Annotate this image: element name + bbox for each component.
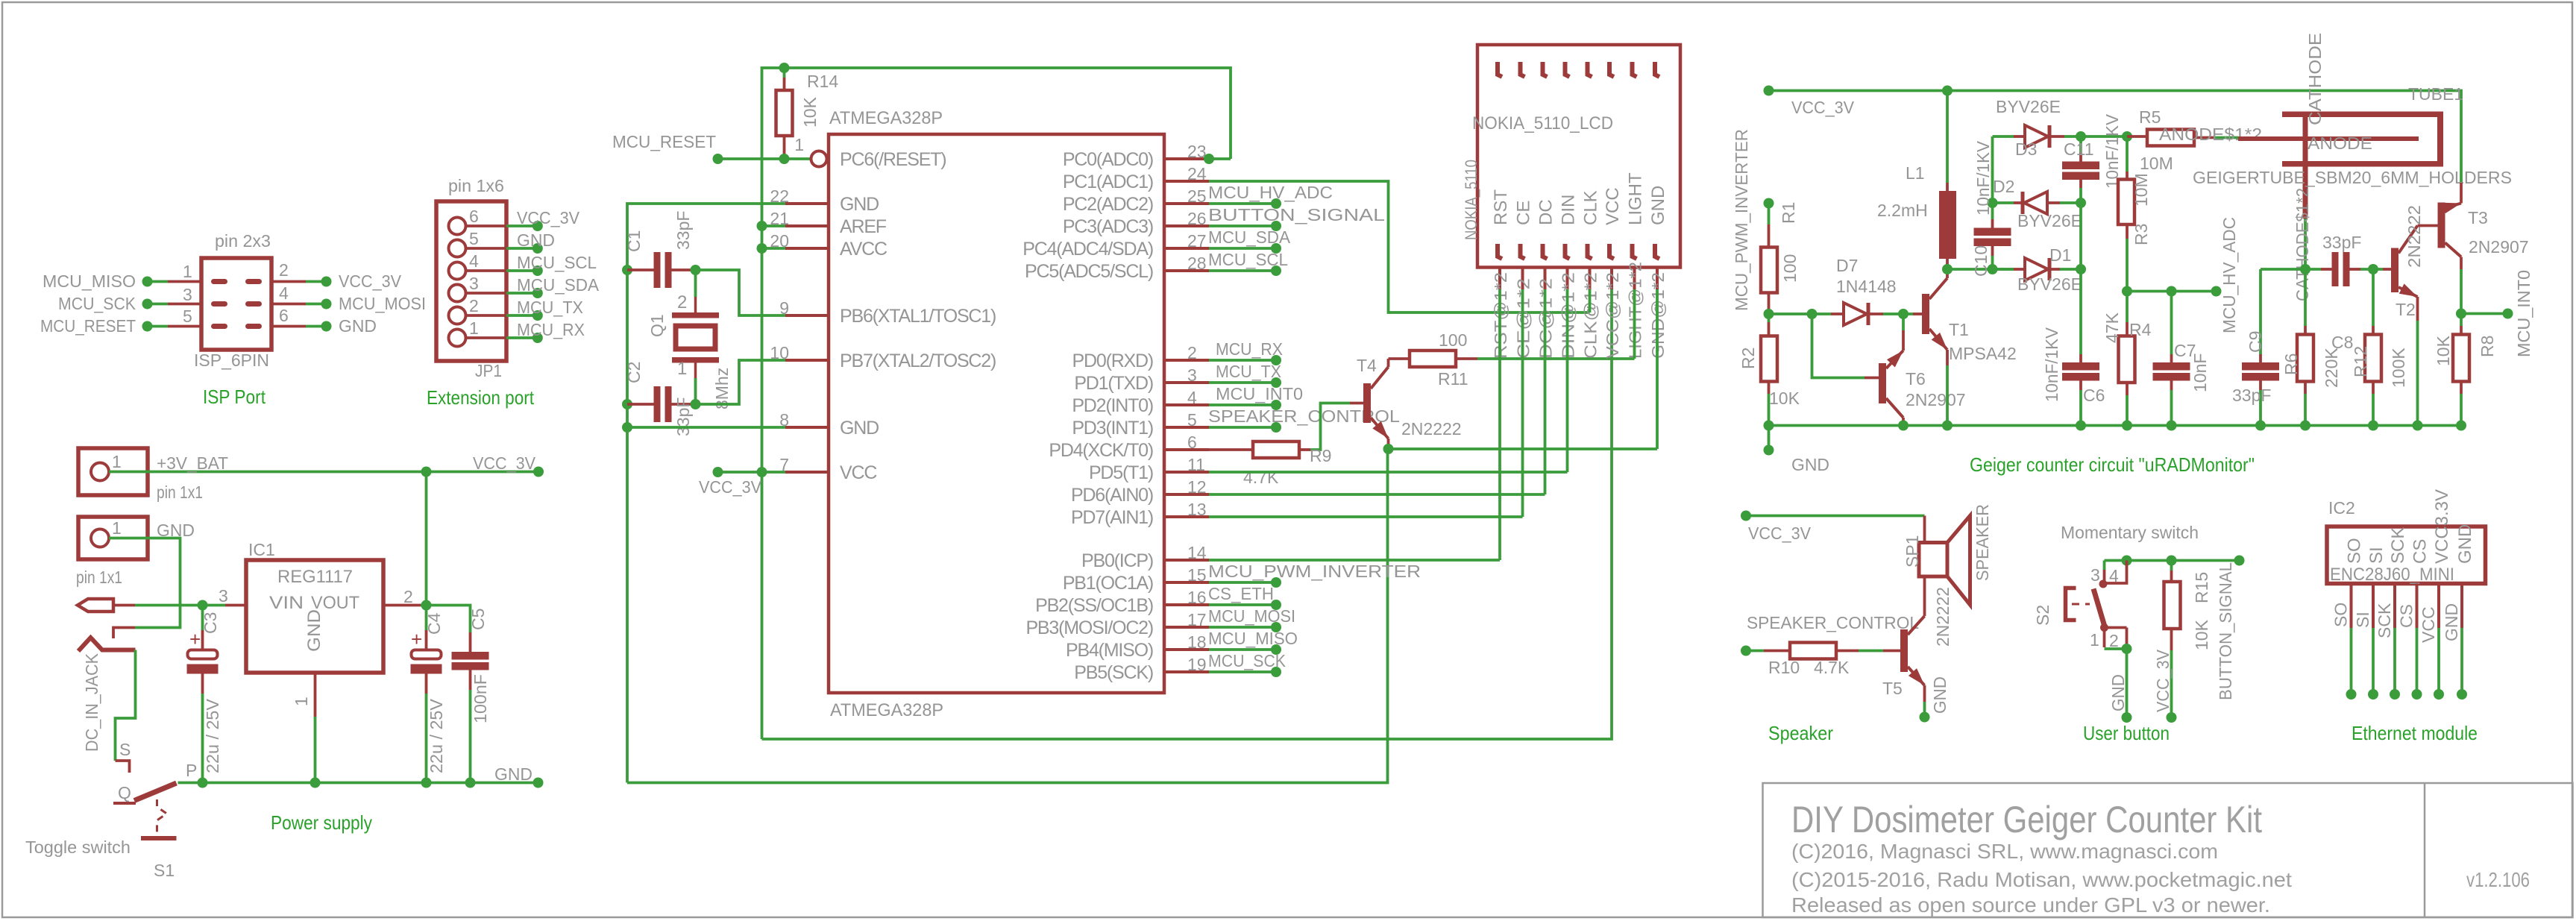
svg-text:Q1: Q1 xyxy=(647,314,667,337)
svg-text:ISP Port: ISP Port xyxy=(203,386,266,408)
svg-text:pin 1x1: pin 1x1 xyxy=(157,483,203,502)
svg-text:T3: T3 xyxy=(2468,208,2488,227)
MCU pin1 inversion bubble xyxy=(811,151,827,167)
svg-text:1: 1 xyxy=(112,452,122,471)
svg-text:VCC@1*2: VCC@1*2 xyxy=(1603,272,1622,359)
svg-text:33pF: 33pF xyxy=(673,397,693,436)
svg-text:4: 4 xyxy=(279,283,289,303)
wire net SPEAKER_CONTROL xyxy=(1209,426,1276,429)
wire REG1117 VOUT pin2 xyxy=(383,604,421,607)
svg-text:MCU_MOSI: MCU_MOSI xyxy=(339,294,426,313)
svg-text:MCU_RX: MCU_RX xyxy=(517,320,585,339)
svg-text:MCU_TX: MCU_TX xyxy=(1216,362,1281,381)
svg-text:VCC_3V: VCC_3V xyxy=(1748,524,1812,543)
svg-text:4.7K: 4.7K xyxy=(1243,468,1279,487)
svg-text:PD7(AIN1): PD7(AIN1) xyxy=(1071,507,1153,528)
svg-text:MCU_MOSI: MCU_MOSI xyxy=(1208,606,1295,626)
svg-text:S2: S2 xyxy=(2033,605,2052,626)
svg-text:3: 3 xyxy=(183,285,192,304)
svg-text:PC5(ADC5/SCL): PC5(ADC5/SCL) xyxy=(1025,261,1153,282)
svg-text:4.7K: 4.7K xyxy=(1814,658,1850,677)
svg-text:10K: 10K xyxy=(800,96,820,128)
svg-text:VCC_3V: VCC_3V xyxy=(473,453,536,473)
svg-text:ANODE$1*2: ANODE$1*2 xyxy=(2159,125,2262,144)
svg-text:15: 15 xyxy=(1187,565,1207,585)
wire net MCU_HV_ADC xyxy=(1209,202,1276,205)
wire cathode node row xyxy=(2261,268,2305,271)
svg-text:12: 12 xyxy=(1187,477,1207,497)
wire net MCU_INT0 xyxy=(1209,403,1276,406)
svg-text:CE: CE xyxy=(1514,201,1534,225)
svg-text:R1: R1 xyxy=(1779,202,1798,224)
capacitor C8 xyxy=(2321,268,2332,271)
wire L1 bottom to D1 anode xyxy=(1947,268,2014,271)
wire jack switch pin S xyxy=(116,650,136,761)
svg-text:SI: SI xyxy=(2366,547,2387,564)
wire battery GND to jack sleeve xyxy=(109,538,180,628)
svg-text:GEIGERTUBE_SBM20_6MM_HOLDERS: GEIGERTUBE_SBM20_6MM_HOLDERS xyxy=(2193,168,2512,187)
MCU pin 21 AREF xyxy=(785,224,829,227)
MCU pin 14 PB0(ICP) xyxy=(1164,559,1209,562)
svg-text:PC6(/RESET): PC6(/RESET) xyxy=(840,149,946,170)
svg-text:3: 3 xyxy=(1187,365,1197,385)
switch S2 lever xyxy=(2093,589,2105,627)
svg-text:23: 23 xyxy=(1187,142,1207,161)
svg-text:C8: C8 xyxy=(2331,333,2353,352)
svg-text:1: 1 xyxy=(292,697,311,706)
svg-text:5: 5 xyxy=(183,307,192,326)
svg-text:VCC_3V: VCC_3V xyxy=(339,271,402,291)
svg-text:MCU_SDA: MCU_SDA xyxy=(1208,227,1291,247)
svg-text:10nF: 10nF xyxy=(2190,353,2210,392)
transistor T3 2N2907 xyxy=(2418,224,2438,227)
wire VCC_3V to speaker xyxy=(1741,511,1751,521)
svg-text:R3: R3 xyxy=(2132,224,2151,245)
svg-text:D1: D1 xyxy=(2049,245,2071,265)
svg-text:1: 1 xyxy=(469,318,479,338)
svg-text:C4: C4 xyxy=(424,612,444,635)
svg-text:10K: 10K xyxy=(1769,389,1800,408)
wire T4 emitter to LCD GND xyxy=(1389,447,1658,450)
wire pin14 to LCD RST xyxy=(1209,559,1500,562)
svg-text:1: 1 xyxy=(677,359,687,379)
svg-text:Geiger counter circuit "uRADMo: Geiger counter circuit "uRADMonitor" xyxy=(1970,453,2255,476)
svg-text:MCU_SCL: MCU_SCL xyxy=(1208,250,1288,269)
svg-text:R11: R11 xyxy=(1438,369,1468,389)
svg-text:Speaker: Speaker xyxy=(1768,722,1833,744)
MCU pin 12 PD6(AIN0) xyxy=(1164,493,1209,496)
svg-text:Released as open source under: Released as open source under GPL v3 or … xyxy=(1791,893,2270,917)
svg-text:GND: GND xyxy=(1791,455,1829,474)
MCU pin 2 PD0(RXD) xyxy=(1164,359,1209,362)
svg-text:100nF: 100nF xyxy=(471,674,490,723)
svg-text:CS: CS xyxy=(2397,604,2416,628)
svg-text:24: 24 xyxy=(1187,164,1207,183)
MCU pin 8 GND xyxy=(785,426,829,429)
pin header GND box xyxy=(78,517,148,559)
svg-text:2N2222: 2N2222 xyxy=(1401,419,1462,439)
LCD pad/pin RST xyxy=(1498,62,1502,77)
svg-text:10M: 10M xyxy=(2132,173,2151,207)
svg-text:100K: 100K xyxy=(2389,348,2408,388)
svg-text:BUTTON_SIGNAL: BUTTON_SIGNAL xyxy=(2216,562,2235,700)
wire button top net xyxy=(2105,559,2240,562)
svg-text:PD4(XCK/T0): PD4(XCK/T0) xyxy=(1049,440,1153,461)
svg-text:SPEAKER_CONTROL: SPEAKER_CONTROL xyxy=(1208,406,1400,426)
toggle switch S1 xyxy=(178,782,203,785)
JP1 pin circle 5 xyxy=(449,240,466,257)
resistor R9 xyxy=(1209,448,1253,451)
wire net MCU_MOSI xyxy=(1209,626,1276,629)
wire D2 node down to D1 node xyxy=(2079,203,2082,269)
svg-text:PC0(ADC0): PC0(ADC0) xyxy=(1063,149,1153,170)
wire LCD DC column xyxy=(1544,289,1547,494)
capacitor C9 xyxy=(2259,269,2262,354)
svg-text:26: 26 xyxy=(1187,209,1207,228)
resistor R10 xyxy=(1764,650,1790,653)
wire LCD CLK stub xyxy=(1589,289,1592,312)
IC2 ENC28J60_MINI box xyxy=(2327,527,2486,584)
wire MCU_PWM_INVERTER to R1 xyxy=(1764,198,1774,209)
svg-text:R15: R15 xyxy=(2192,572,2211,603)
svg-text:R2: R2 xyxy=(1738,348,1758,369)
svg-text:4: 4 xyxy=(469,251,479,271)
svg-text:1: 1 xyxy=(794,135,804,154)
resistor R3 xyxy=(2126,136,2129,172)
resistor R14 xyxy=(783,68,786,78)
MCU pin 23 PC0(ADC0) xyxy=(1164,157,1209,160)
connector JP1 pin 1x6 box xyxy=(436,201,506,361)
svg-text:GND: GND xyxy=(339,316,377,336)
svg-text:GND: GND xyxy=(1648,186,1668,225)
capacitor C5 xyxy=(427,606,471,633)
wire net MCU_RX xyxy=(1209,359,1276,362)
svg-text:22: 22 xyxy=(770,186,789,206)
svg-text:SPEAKER_CONTROL: SPEAKER_CONTROL xyxy=(1747,613,1919,632)
wire R1/R2 node to D7 and T6 xyxy=(1769,312,1832,315)
resistor R5 xyxy=(2127,135,2147,138)
svg-text:DIY Dosimeter Geiger Counter K: DIY Dosimeter Geiger Counter Kit xyxy=(1791,799,2262,840)
svg-text:BYV26E: BYV26E xyxy=(1996,97,2061,116)
wire net MCU_MISO xyxy=(1209,648,1276,651)
svg-text:ATMEGA328P: ATMEGA328P xyxy=(830,700,943,720)
LCD pad/pin DIN xyxy=(1565,62,1570,77)
svg-text:AVCC: AVCC xyxy=(840,239,888,260)
wire pin23 to VCC rail xyxy=(1209,157,1231,160)
svg-text:11: 11 xyxy=(1187,455,1205,474)
svg-text:9: 9 xyxy=(779,298,789,318)
MCU pin 9 PB6(XTAL1/TOSC1) xyxy=(785,314,829,317)
connector ISP_6PIN pin 2x3 box xyxy=(201,258,271,350)
svg-text:220K: 220K xyxy=(2322,348,2341,388)
capacitor C2 xyxy=(622,399,632,409)
svg-text:CLK: CLK xyxy=(1581,190,1601,225)
diode D7 1N4148 xyxy=(1831,312,1844,315)
connector DC_IN_JACK xyxy=(78,599,113,612)
svg-text:NOKIA_5110_LCD: NOKIA_5110_LCD xyxy=(1472,113,1613,133)
svg-text:JP1: JP1 xyxy=(475,361,502,380)
svg-text:3: 3 xyxy=(469,274,479,293)
svg-text:DC_IN_JACK: DC_IN_JACK xyxy=(82,653,101,752)
svg-text:GND: GND xyxy=(2442,603,2461,641)
svg-text:R9: R9 xyxy=(1310,446,1331,465)
transistor T5 2N2222 xyxy=(1900,629,1908,672)
resistor R8 xyxy=(2460,314,2463,327)
svg-text:10M: 10M xyxy=(2140,154,2173,173)
svg-text:MCU_SCL: MCU_SCL xyxy=(517,253,597,272)
wire JP1 pin 6 to VCC_3V xyxy=(466,224,507,227)
svg-text:(C)2015-2016, Radu Motisan, ww: (C)2015-2016, Radu Motisan, www.pocketma… xyxy=(1791,868,2292,891)
svg-text:GND: GND xyxy=(840,418,879,439)
svg-text:10: 10 xyxy=(770,343,789,362)
wire JP1 pin 2 to MCU_TX xyxy=(466,314,507,317)
svg-text:VCC3.3V: VCC3.3V xyxy=(2432,489,2452,564)
resistor R12 xyxy=(2372,269,2375,326)
wire ISP pin6 to GND xyxy=(271,325,306,328)
JP1 pin circle 4 xyxy=(449,263,466,280)
wire LCD LIGHT column xyxy=(1633,289,1636,359)
svg-text:PD6(AIN0): PD6(AIN0) xyxy=(1071,485,1153,506)
transistor T6 2N2907 xyxy=(1879,363,1886,403)
svg-text:100: 100 xyxy=(1439,330,1467,350)
wire pin24 to LCD CLK xyxy=(1209,181,1590,312)
svg-text:Q: Q xyxy=(118,783,131,802)
svg-text:(C)2016, Magnasci SRL, www.mag: (C)2016, Magnasci SRL, www.magnasci.com xyxy=(1791,840,2218,863)
MCU pin 17 PB3(MOSI/OC2) xyxy=(1164,626,1209,629)
svg-text:pin 1x6: pin 1x6 xyxy=(448,176,504,195)
svg-text:D3: D3 xyxy=(2015,139,2037,159)
switch S2 pins 3/4 xyxy=(2103,561,2106,571)
svg-text:21: 21 xyxy=(770,209,789,228)
svg-text:SO: SO xyxy=(2345,538,2365,564)
svg-text:10nF/1KV: 10nF/1KV xyxy=(1973,140,1993,216)
capacitor C3 xyxy=(201,606,204,631)
MCU pin 16 PB2(SS/OC1B) xyxy=(1164,603,1209,606)
resistor R1 xyxy=(1768,224,1771,248)
svg-text:2N2907: 2N2907 xyxy=(2469,237,2529,257)
svg-text:S1: S1 xyxy=(154,861,175,880)
svg-text:T1: T1 xyxy=(1949,320,1969,339)
svg-text:2N2907: 2N2907 xyxy=(1906,390,1966,409)
svg-text:pin 2x3: pin 2x3 xyxy=(215,231,271,251)
resistor R2 xyxy=(1768,314,1771,322)
transistor T2 2N2222 xyxy=(2383,268,2391,271)
svg-text:R14: R14 xyxy=(807,72,838,91)
MCU pin 6 PD4(XCK/T0) xyxy=(1164,448,1209,451)
svg-text:Momentary switch: Momentary switch xyxy=(2061,523,2199,542)
wire R11 to LCD LIGHT xyxy=(1477,357,1635,360)
MCU pin 13 PD7(AIN1) xyxy=(1164,515,1209,518)
wire GND to MCU pin8 xyxy=(627,426,785,429)
wire button to GND xyxy=(2126,649,2129,717)
svg-text:Extension port: Extension port xyxy=(427,386,535,409)
svg-text:Toggle switch: Toggle switch xyxy=(25,837,131,857)
switch S2 pins 1/2 xyxy=(2100,623,2108,632)
MCU pin 20 AVCC xyxy=(785,247,829,250)
MCU pin 15 PB1(OC1A) xyxy=(1164,581,1209,584)
svg-text:22u / 25V: 22u / 25V xyxy=(427,698,446,773)
wire AREF stub xyxy=(762,224,786,227)
svg-text:14: 14 xyxy=(1187,543,1207,562)
svg-text:ANODE: ANODE xyxy=(2308,133,2372,153)
svg-text:13: 13 xyxy=(1187,500,1207,519)
svg-text:RST: RST xyxy=(1491,189,1511,225)
LCD pad/pin CLK xyxy=(1588,62,1592,77)
svg-text:+: + xyxy=(411,628,422,650)
diode D1 BYV26E xyxy=(1993,268,2014,271)
svg-text:2N2222: 2N2222 xyxy=(2404,205,2424,268)
svg-text:PC3(ADC3): PC3(ADC3) xyxy=(1063,216,1153,237)
MCU pin 5 PD3(INT1) xyxy=(1164,426,1209,429)
inductor L1 xyxy=(1946,91,1949,183)
svg-text:22u / 25V: 22u / 25V xyxy=(203,698,222,773)
MCU pin 28 PC5(ADC5/SCL) xyxy=(1164,269,1209,272)
svg-text:6: 6 xyxy=(1187,433,1197,452)
svg-text:2: 2 xyxy=(1187,343,1197,362)
LCD pad/pin CE xyxy=(1521,62,1525,77)
svg-text:T2: T2 xyxy=(2396,300,2416,319)
svg-text:CLK@1*2: CLK@1*2 xyxy=(1581,272,1600,359)
JP1 pin circle 2 xyxy=(449,307,466,324)
wire VCC pin7 stub xyxy=(718,471,786,474)
svg-text:Power supply: Power supply xyxy=(271,811,372,834)
wire MCU_INT0 net xyxy=(2461,312,2508,315)
svg-text:PC4(ADC4/SDA): PC4(ADC4/SDA) xyxy=(1022,239,1153,260)
svg-text:LIGHT: LIGHT xyxy=(1626,172,1646,225)
resistor R15 xyxy=(2170,561,2173,571)
capacitor C11 xyxy=(2079,136,2082,153)
svg-text:v1.2.106: v1.2.106 xyxy=(2466,868,2530,891)
svg-text:27: 27 xyxy=(1187,231,1207,251)
wire LCD DIN column xyxy=(1566,289,1569,472)
svg-text:1N4148: 1N4148 xyxy=(1836,277,1897,296)
svg-text:17: 17 xyxy=(1187,610,1207,629)
svg-text:ATMEGA328P: ATMEGA328P xyxy=(829,108,943,128)
capacitor C4 xyxy=(425,606,428,631)
svg-text:CATHODE: CATHODE xyxy=(2305,33,2325,125)
wire geiger VCC_3V rail xyxy=(1769,91,2462,183)
svg-text:7: 7 xyxy=(779,455,789,474)
svg-text:AREF: AREF xyxy=(840,216,887,237)
svg-text:IC2: IC2 xyxy=(2328,498,2355,518)
capacitor C6 xyxy=(2079,269,2082,354)
wire pin12 to LCD DC xyxy=(1209,493,1545,496)
wire pin11 to LCD DIN xyxy=(1209,471,1568,474)
svg-text:PB7(XTAL2/TOSC2): PB7(XTAL2/TOSC2) xyxy=(840,351,996,371)
svg-text:PD3(INT1): PD3(INT1) xyxy=(1072,418,1153,439)
svg-text:1: 1 xyxy=(2090,630,2099,650)
wire MCU_HV_ADC node xyxy=(2127,290,2217,293)
crystal Q1 xyxy=(694,270,697,297)
svg-text:MCU_RESET: MCU_RESET xyxy=(612,132,716,151)
svg-text:GND: GND xyxy=(2108,674,2128,711)
MCU pin 24 PC1(ADC1) xyxy=(1164,180,1209,183)
wire VCC_3V top rail xyxy=(762,68,1231,739)
svg-text:2N2222: 2N2222 xyxy=(1933,587,1953,647)
svg-text:6: 6 xyxy=(469,207,479,226)
svg-text:SCK: SCK xyxy=(2388,527,2408,564)
svg-text:SO: SO xyxy=(2331,603,2351,627)
svg-text:MCU_SDA: MCU_SDA xyxy=(517,275,600,295)
LCD pad/pin DC xyxy=(1543,62,1548,77)
svg-text:VCC_3V: VCC_3V xyxy=(2153,649,2173,712)
svg-text:VCC: VCC xyxy=(2419,606,2438,643)
MCU pin 3 PD1(TXD) xyxy=(1164,381,1209,384)
wire net BUTTON_SIGNAL xyxy=(1209,224,1276,227)
svg-text:P: P xyxy=(186,761,197,780)
svg-text:D2: D2 xyxy=(1993,177,2014,196)
svg-text:33pF: 33pF xyxy=(2322,233,2361,252)
svg-text:User button: User button xyxy=(2083,722,2170,744)
wire LCD VCC stub xyxy=(1610,289,1613,312)
wire LCD RST column xyxy=(1498,289,1501,560)
svg-text:C9: C9 xyxy=(2246,331,2265,353)
speaker SP1 xyxy=(1923,516,1926,543)
svg-text:10K: 10K xyxy=(2192,619,2211,650)
capacitor C1 xyxy=(622,265,632,275)
svg-text:MCU_TX: MCU_TX xyxy=(517,298,583,317)
svg-text:5: 5 xyxy=(469,229,479,248)
svg-text:BYV26E: BYV26E xyxy=(2017,211,2082,230)
LCD pad/pin VCC xyxy=(1609,62,1614,77)
svg-text:VCC: VCC xyxy=(1603,187,1623,225)
transistor T4 2N2222 xyxy=(1350,402,1363,405)
MCU pin 18 PB4(MISO) xyxy=(1164,648,1209,651)
wire net MCU_SCK xyxy=(1209,670,1276,673)
svg-text:R4: R4 xyxy=(2129,320,2152,339)
svg-text:1: 1 xyxy=(183,262,192,281)
svg-text:PB4(MISO): PB4(MISO) xyxy=(1066,640,1153,661)
svg-text:10nF/1KV: 10nF/1KV xyxy=(2042,327,2061,402)
geiger tube TUBE1 xyxy=(2238,136,2419,141)
wire VCC bottom run to LCD VCC xyxy=(762,312,1612,739)
svg-text:VCC: VCC xyxy=(840,462,877,483)
svg-text:10K: 10K xyxy=(2434,335,2453,366)
svg-text:4: 4 xyxy=(2109,566,2119,585)
svg-text:1: 1 xyxy=(112,518,122,538)
wire ISP pin2 to VCC_3V xyxy=(271,280,306,283)
svg-text:MCU_INT0: MCU_INT0 xyxy=(2514,270,2533,357)
wire net MCU_SCL xyxy=(1209,269,1276,272)
MCU pin 11 PD5(T1) xyxy=(1164,471,1209,474)
svg-text:DIN: DIN xyxy=(1559,195,1579,225)
svg-text:GND: GND xyxy=(304,609,324,652)
svg-text:VCC_3V: VCC_3V xyxy=(517,208,580,227)
svg-text:2.2mH: 2.2mH xyxy=(1877,201,1928,220)
svg-text:C1: C1 xyxy=(624,230,644,252)
svg-text:2: 2 xyxy=(279,260,289,280)
MCU pin 22 GND xyxy=(785,202,829,205)
MCU pin 25 PC2(ADC2) xyxy=(1164,202,1209,205)
wire JP1 pin 1 to MCU_RX xyxy=(466,336,507,339)
svg-text:2: 2 xyxy=(403,587,413,606)
svg-text:D7: D7 xyxy=(1836,256,1858,275)
JP1 pin circle 3 xyxy=(449,285,466,302)
wire net MCU_TX xyxy=(1209,381,1276,384)
svg-text:PD2(INT0): PD2(INT0) xyxy=(1072,395,1153,416)
svg-text:PB2(SS/OC1B): PB2(SS/OC1B) xyxy=(1035,595,1153,616)
svg-text:100: 100 xyxy=(1780,254,1800,283)
LCD pad/pin LIGHT xyxy=(1633,62,1637,77)
svg-text:R8: R8 xyxy=(2478,336,2497,357)
module NOKIA_5110_LCD box xyxy=(1477,45,1680,268)
svg-text:6: 6 xyxy=(279,306,289,325)
wire jack tip to REG1117 VIN xyxy=(113,604,135,607)
svg-text:GND: GND xyxy=(1930,676,1950,714)
svg-text:BUTTON_SIGNAL: BUTTON_SIGNAL xyxy=(1208,205,1385,224)
svg-text:GND: GND xyxy=(840,194,879,215)
svg-text:VCC_3V: VCC_3V xyxy=(1791,98,1855,117)
